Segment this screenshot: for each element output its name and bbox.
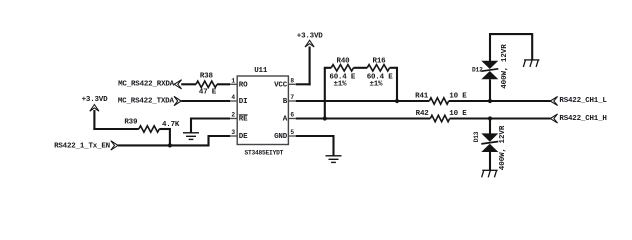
svg-text:R42: R42: [416, 110, 430, 118]
wire A down to D13: [489, 118, 491, 134]
svg-text:1: 1: [231, 77, 235, 84]
wire up to +3.3VD: [309, 47, 311, 86]
svg-text:B: B: [283, 98, 288, 106]
svg-text:2: 2: [231, 112, 235, 119]
wire RE down to ground: [190, 118, 192, 133]
pin stub 2: [230, 118, 237, 120]
pin stub 4: [230, 100, 237, 102]
svg-text:±1%: ±1%: [333, 81, 347, 89]
junction B/termination: [395, 99, 399, 103]
ground GND2 (pin5): [326, 156, 342, 163]
svg-text:5: 5: [290, 129, 294, 136]
chassis ground top: [523, 60, 539, 67]
resistor R40: [331, 65, 353, 71]
wire to R39: [93, 128, 138, 130]
port connector RS422_CH1_H: [550, 114, 557, 123]
svg-text:4.7K: 4.7K: [162, 121, 180, 129]
resistor R39: [139, 126, 160, 132]
wire A line left part: [296, 117, 431, 119]
resistor R42: [430, 115, 449, 121]
svg-text:DE: DE: [239, 133, 248, 141]
resistor R38: [196, 81, 217, 87]
svg-text:6: 6: [290, 112, 294, 119]
pin stub 8: [288, 83, 295, 85]
junction B/D12: [488, 99, 492, 103]
svg-text:10 E: 10 E: [449, 110, 467, 118]
wire R38 to U11 pin 1: [217, 83, 230, 85]
svg-text:R40: R40: [337, 58, 351, 66]
pin stub 5: [288, 135, 295, 137]
wire pin2 RE: [191, 117, 230, 119]
wire B line right part: [449, 100, 551, 102]
svg-text:MC_RS422_TXDA: MC_RS422_TXDA: [118, 98, 175, 106]
wire A line right part: [450, 117, 551, 119]
wire termination right riser: [396, 68, 398, 101]
wire R16 to riser: [390, 67, 398, 69]
svg-text:400W, 12VR: 400W, 12VR: [501, 44, 509, 89]
wire D12 up: [489, 33, 491, 61]
svg-text:3: 3: [231, 129, 235, 136]
wire top to chassis: [489, 33, 532, 35]
IC U11 ST3485EIYDT body: [237, 76, 288, 145]
port connector RS422_1_Tx_EN: [111, 141, 118, 150]
TVS diode D12: [481, 61, 498, 80]
wire R39 down to EN net: [169, 128, 171, 145]
wire B line left part: [296, 100, 430, 102]
svg-text:47 E: 47 E: [199, 89, 217, 97]
wire B up to D12: [489, 79, 491, 102]
wire down to chassis gnd: [531, 33, 533, 60]
junction A/D13: [488, 116, 492, 120]
svg-text:+3.3VD: +3.3VD: [297, 33, 324, 41]
ground GND1 (RE): [183, 133, 199, 140]
pin stub 1: [230, 83, 237, 85]
svg-text:+3.3VD: +3.3VD: [82, 96, 109, 104]
svg-text:RS422_1_Tx_EN: RS422_1_Tx_EN: [54, 143, 110, 151]
svg-text:RE: RE: [239, 116, 248, 124]
svg-text:RO: RO: [239, 82, 248, 90]
svg-text:R16: R16: [373, 58, 387, 66]
svg-text:GND: GND: [274, 133, 288, 141]
svg-text:7: 7: [290, 94, 294, 101]
wire EN riser: [207, 136, 209, 146]
wire pin5 GND: [296, 135, 335, 137]
svg-text:D13: D13: [473, 131, 480, 142]
chassis ground bottom: [482, 170, 498, 177]
svg-text:RS422_CH1_L: RS422_CH1_L: [559, 97, 607, 105]
svg-text:D12: D12: [472, 67, 483, 74]
port connector RS422_CH1_L: [550, 96, 557, 105]
wire to R40: [324, 67, 331, 69]
svg-text:U11: U11: [254, 67, 268, 75]
svg-text:ST3485EIYDT: ST3485EIYDT: [244, 149, 283, 156]
wire EN to U11 pin 3: [208, 135, 231, 137]
wire D13 down: [489, 152, 491, 170]
svg-text:MC_RS422_RXDA: MC_RS422_RXDA: [118, 81, 175, 89]
power symbol +3.3VD left: [90, 105, 99, 112]
wire R39 right: [159, 128, 171, 130]
svg-text:R39: R39: [124, 119, 138, 127]
svg-text:±1%: ±1%: [369, 81, 383, 89]
junction EN/R39: [168, 143, 172, 147]
svg-text:10 E: 10 E: [449, 92, 467, 100]
svg-text:R38: R38: [200, 73, 214, 81]
wire from +3.3VD down: [93, 110, 95, 130]
resistor R16: [367, 65, 389, 71]
TVS diode D13: [481, 133, 498, 152]
svg-text:R41: R41: [415, 92, 429, 100]
port connector MC_RS422_TXDA: [174, 96, 181, 105]
svg-text:DI: DI: [239, 98, 248, 106]
pin stub 6: [288, 118, 295, 120]
svg-text:VCC: VCC: [274, 82, 288, 90]
svg-text:8: 8: [290, 77, 294, 84]
wire EN net: [118, 144, 210, 146]
junction A/termination: [323, 116, 327, 120]
svg-text:400W, 12VR: 400W, 12VR: [499, 125, 507, 170]
wire down to ground: [332, 135, 334, 156]
wire pin8 VCC: [296, 83, 311, 85]
pin stub 3: [230, 135, 237, 137]
svg-text:A: A: [283, 116, 288, 124]
wire R40 to R16: [354, 67, 368, 69]
svg-text:RS422_CH1_H: RS422_CH1_H: [559, 115, 606, 123]
wire RXDA to R38: [181, 83, 196, 85]
svg-text:4: 4: [231, 94, 235, 101]
power symbol +3.3VD top: [305, 40, 314, 47]
resistor R41: [429, 98, 448, 104]
pin stub 7: [288, 100, 295, 102]
wire termination left riser: [324, 68, 326, 119]
wire TXDA to U11 pin 4: [181, 100, 230, 102]
port connector MC_RS422_RXDA: [174, 80, 181, 89]
